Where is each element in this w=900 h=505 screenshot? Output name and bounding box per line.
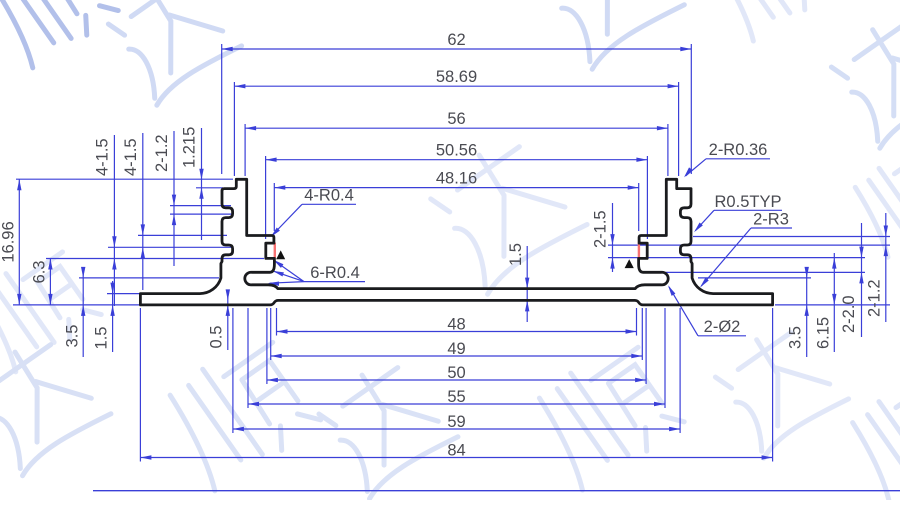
datum triangle left: [276, 250, 285, 259]
svg-text:4-1.5: 4-1.5: [122, 138, 140, 176]
dim 58.69: [234, 85, 678, 87]
watermark: [0, 0, 123, 71]
label 6-R0.4: [304, 281, 365, 283]
svg-text:48: 48: [447, 316, 465, 334]
dim 84: [140, 457, 772, 459]
svg-text:1.5: 1.5: [93, 327, 111, 350]
dim 56: [245, 127, 668, 129]
svg-text:50: 50: [447, 364, 465, 382]
svg-text:59: 59: [447, 413, 465, 431]
dim 6.3: [49, 259, 51, 305]
dim 2-1.2: [173, 131, 175, 266]
ext 3.5R top: [698, 277, 811, 279]
svg-text:50.56: 50.56: [436, 142, 477, 160]
svg-text:2-R3: 2-R3: [753, 211, 789, 229]
svg-text:0.5: 0.5: [208, 326, 226, 349]
svg-text:1.5: 1.5: [507, 243, 525, 266]
svg-text:2-1.5: 2-1.5: [592, 210, 610, 248]
dim 3.5 right: [806, 268, 808, 357]
dim 2-1.5 notch: [612, 203, 614, 272]
dim 4-1.5 (line 1): [113, 135, 115, 306]
label R0.5TYP: [714, 209, 782, 211]
svg-text:2-1.2: 2-1.2: [153, 134, 171, 172]
label 2-O2: [698, 335, 746, 337]
svg-text:6.3: 6.3: [31, 261, 49, 284]
dim 50: [267, 379, 646, 381]
ext 2-1.2R top: [693, 236, 890, 238]
ext ledge 1.215 bottom: [196, 187, 223, 189]
dim 48.16: [274, 187, 638, 189]
dim 4-1.5 (line 2): [142, 133, 144, 290]
dim 2-2.0: [861, 223, 863, 337]
extrusion profile outline: [140, 179, 772, 305]
ext tower top y=179: [16, 178, 233, 180]
svg-text:2-1.2: 2-1.2: [866, 279, 884, 317]
ext notch top / 2-1.2R bottom: [608, 244, 890, 246]
label 2-R3: [751, 227, 792, 229]
frame border line: [93, 490, 900, 492]
ext base bottom right: [775, 304, 890, 306]
svg-text:16.96: 16.96: [0, 221, 18, 262]
ext notch ledge / 6.15 top: [608, 257, 865, 259]
svg-text:2-2.0: 2-2.0: [840, 295, 858, 333]
svg-text:6-R0.4: 6-R0.4: [310, 264, 360, 282]
svg-text:R0.5TYP: R0.5TYP: [715, 193, 782, 211]
ext slot top / 2-2.0 bottom: [655, 271, 865, 273]
svg-text:62: 62: [447, 31, 465, 49]
dim 3.5 left: [82, 268, 84, 357]
dim 0.5 step: [227, 296, 229, 350]
red face mark right: [638, 243, 640, 259]
svg-text:56: 56: [447, 110, 465, 128]
extension lines: [221, 44, 223, 174]
svg-text:3.5: 3.5: [64, 325, 82, 348]
dim 55: [248, 403, 665, 405]
dim 2-1.2 right: [885, 213, 887, 322]
datum triangle right: [625, 259, 634, 268]
svg-text:55: 55: [447, 388, 465, 406]
svg-text:2-Ø2: 2-Ø2: [704, 318, 741, 336]
ext base bottom left: [13, 304, 252, 306]
svg-text:3.5: 3.5: [787, 326, 805, 349]
dim 62: [222, 48, 692, 50]
dim 6.15: [833, 253, 835, 352]
ext 3.5L top: [79, 277, 219, 279]
dim 1.5 web: [526, 246, 528, 322]
red face mark left: [274, 243, 276, 259]
label 2-R0.36: [706, 158, 770, 160]
svg-text:4-R0.4: 4-R0.4: [304, 187, 354, 205]
dim 50.56: [266, 159, 648, 161]
svg-text:84: 84: [447, 442, 465, 460]
dim 59: [233, 428, 680, 430]
svg-text:6.15: 6.15: [815, 317, 833, 349]
label 4-R0.4: [302, 203, 356, 205]
svg-text:1.215: 1.215: [181, 127, 199, 168]
ext 6.3 top: [46, 258, 264, 260]
dim 49: [271, 355, 643, 357]
svg-text:58.69: 58.69: [436, 68, 477, 86]
dim 1.215: [201, 128, 203, 240]
dim 48: [277, 331, 637, 333]
svg-text:49: 49: [447, 340, 465, 358]
dim 1.5 left foot: [112, 281, 114, 352]
ext foot top 1.5L: [107, 293, 141, 295]
svg-text:48.16: 48.16: [436, 170, 477, 188]
dim 16.96: [18, 179, 20, 305]
svg-text:4-1.5: 4-1.5: [94, 138, 112, 176]
svg-text:2-R0.36: 2-R0.36: [709, 141, 768, 159]
